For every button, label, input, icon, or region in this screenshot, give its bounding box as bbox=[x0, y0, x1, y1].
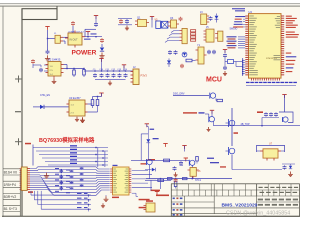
net label +B_PACK bbox=[151, 190, 161, 192]
node junctions on harness bbox=[95, 147, 96, 148]
wire bbox=[192, 60, 196, 62]
ruler cross mark 1 bbox=[15, 78, 22, 80]
resistor R1 bbox=[73, 69, 75, 71]
ground bbox=[126, 26, 128, 29]
MCU right pins bbox=[281, 15, 284, 17]
wire bbox=[246, 85, 296, 87]
capacitor C7 bbox=[31, 60, 35, 62]
ruler dash mark bbox=[15, 111, 21, 113]
wire bbox=[93, 96, 102, 98]
transistor Q5 bbox=[229, 120, 235, 126]
svg-text:4B_TOP: 4B_TOP bbox=[241, 123, 251, 126]
ruler cross mark 2 bbox=[15, 141, 22, 143]
wire (vertical chain) bbox=[231, 108, 233, 146]
transistor Q4 bbox=[283, 117, 288, 122]
wire bbox=[72, 26, 74, 33]
node junction bbox=[66, 68, 67, 69]
transistor Q8 bbox=[190, 160, 195, 165]
ground bbox=[208, 127, 210, 129]
VCC T-bar bbox=[99, 92, 103, 94]
net labels right of AFE bbox=[139, 199, 150, 201]
VCC T-bar bbox=[94, 15, 98, 17]
MCU right net labels top bbox=[286, 16, 292, 17]
MCU pin names right low bbox=[274, 54, 281, 57]
capacitor C19 bbox=[207, 50, 211, 52]
ground (fan) bbox=[46, 173, 48, 176]
resistor R2 bbox=[83, 69, 85, 70]
resistor R9 bbox=[186, 59, 192, 62]
capacitor C3 bbox=[94, 23, 98, 25]
sheet border zone notch bbox=[22, 9, 57, 20]
wire bbox=[131, 159, 189, 161]
wire (vertical drops to AFE top) bbox=[97, 148, 99, 168]
capacitor C21 bbox=[223, 54, 227, 56]
MCU left outside labels top bbox=[235, 16, 245, 17]
sheet border bottom bbox=[2, 215, 300, 217]
VCC T-bar bbox=[223, 49, 227, 51]
wire bbox=[118, 18, 132, 20]
VCC T-bar small bbox=[184, 157, 188, 159]
ground bbox=[105, 196, 107, 199]
window top white strip bbox=[0, 0, 300, 3]
svg-text:DSG_DRV: DSG_DRV bbox=[173, 93, 185, 96]
panel top edge line bbox=[0, 5, 300, 7]
transistor Q10 bbox=[147, 159, 152, 164]
resistor R3 bbox=[91, 100, 94, 106]
capacitor C15 bbox=[209, 17, 213, 19]
diode D6 bbox=[290, 164, 292, 166]
svg-text:MCU: MCU bbox=[206, 77, 222, 84]
connector J7 label bbox=[28, 191, 33, 193]
VCC T-bar bbox=[282, 94, 286, 96]
capacitor C14 bbox=[179, 17, 183, 19]
capacitor C27 bbox=[173, 167, 177, 169]
AFE left pins bbox=[110, 168, 112, 170]
wire bbox=[147, 143, 149, 159]
capacitor C18 bbox=[180, 64, 184, 66]
diode D2 bbox=[33, 106, 40, 108]
diode D9 bbox=[145, 169, 152, 171]
wire bbox=[205, 113, 209, 115]
title block top band text bbox=[259, 187, 263, 188]
title block v-lines bbox=[213, 184, 215, 214]
wire bbox=[63, 36, 68, 38]
svg-text:CHG_EN: CHG_EN bbox=[40, 94, 50, 97]
wire bbox=[284, 95, 286, 113]
ground bbox=[76, 117, 78, 120]
wire bbox=[47, 30, 49, 50]
capacitors C9-C13 on rail bbox=[94, 70, 95, 71]
net label bbox=[220, 166, 226, 167]
capacitor C16 bbox=[168, 51, 172, 53]
net label bbox=[153, 138, 159, 139]
MCU right net labels mid bbox=[286, 32, 295, 33]
wire bbox=[150, 180, 152, 190]
svg-text:B3R+V2: B3R+V2 bbox=[4, 195, 17, 199]
wire (bottom rail) bbox=[146, 178, 232, 180]
wire bbox=[231, 155, 233, 170]
wire harness to AFE bbox=[33, 147, 108, 149]
bus net labels below MCU bbox=[246, 82, 250, 83]
wire bbox=[145, 179, 171, 181]
wire bbox=[85, 36, 102, 38]
capacitor C17 bbox=[174, 51, 178, 53]
capacitor row C23 C24 C25 bbox=[264, 113, 268, 115]
window left edge line bbox=[2, 7, 4, 218]
ground bbox=[82, 118, 84, 121]
wires into MCU left bbox=[238, 36, 245, 38]
AFE right pins bbox=[129, 168, 131, 170]
resistor pack R5-R8 bbox=[191, 30, 196, 32]
connector J8 label bbox=[146, 200, 153, 202]
fan junction dots bbox=[61, 169, 62, 170]
capacitor C5 bbox=[119, 20, 123, 22]
wire fan from J4 bbox=[171, 31, 180, 33]
MCU left pins bbox=[245, 15, 248, 17]
diode D8 bbox=[147, 127, 149, 140]
revision cell icons bbox=[173, 198, 175, 200]
crystal Y2 bbox=[228, 60, 234, 64]
wire bbox=[132, 170, 148, 172]
MCU bottom pins bbox=[251, 78, 253, 80]
svg-text:STM32F103: STM32F103 bbox=[266, 58, 278, 60]
svg-text:BMS_V2021029: BMS_V2021029 bbox=[222, 203, 258, 209]
wire bbox=[160, 179, 162, 189]
VCC T-bar bbox=[210, 109, 214, 111]
net label bbox=[150, 129, 155, 130]
net label CHG bbox=[210, 162, 219, 163]
net label bbox=[84, 39, 91, 40]
IC U2 (6 pin) bbox=[48, 62, 61, 77]
wire bbox=[257, 150, 260, 152]
capacitor C6 bbox=[125, 20, 129, 22]
capacitor C26 bbox=[283, 166, 287, 168]
wire bbox=[64, 64, 68, 66]
capacitor C1 (top of power input) bbox=[71, 22, 75, 24]
node junction bbox=[47, 38, 48, 39]
LED D5 bbox=[182, 52, 187, 57]
AFE pin names bbox=[113, 168, 116, 171]
net label bbox=[148, 159, 156, 161]
connector J3 bbox=[201, 14, 207, 25]
wire bbox=[149, 165, 151, 179]
wire bbox=[132, 193, 138, 196]
wire bbox=[48, 38, 57, 40]
transistor Q1 (SOT-23) bbox=[138, 20, 147, 27]
ground bbox=[109, 81, 111, 84]
net label CHG_DSG bbox=[183, 112, 197, 113]
left net label texts bbox=[227, 36, 237, 37]
node junction bbox=[160, 178, 161, 179]
wire (vertical bus left of MCU) bbox=[242, 58, 244, 76]
wire bbox=[213, 122, 215, 126]
MCU right net labels low bbox=[286, 53, 292, 54]
sheet border left bbox=[21, 9, 23, 217]
wire bbox=[88, 111, 98, 113]
left revision table bbox=[3, 168, 20, 170]
svg-text:NTC1: NTC1 bbox=[195, 180, 202, 182]
wire bbox=[232, 169, 282, 171]
power VT T-bar bbox=[45, 26, 49, 28]
balance caps col 1 bbox=[60, 169, 62, 172]
diode D7 bbox=[180, 165, 184, 167]
ground bbox=[82, 117, 84, 120]
wire (left vertical) bbox=[140, 134, 142, 161]
VCC T-bar bbox=[182, 145, 186, 147]
ground bbox=[47, 55, 49, 58]
fan tiny labels bbox=[55, 168, 59, 169]
net label DSG bbox=[207, 158, 214, 159]
svg-text:B1S4 V0: B1S4 V0 bbox=[4, 171, 17, 175]
ground bbox=[175, 172, 177, 175]
net label +B bbox=[25, 143, 31, 145]
capacitor C4 bbox=[100, 39, 104, 41]
title block h-lines bbox=[171, 189, 299, 191]
wire loop bbox=[257, 145, 285, 152]
opto-isolator U3 bbox=[69, 100, 85, 116]
MCU pin names right top bbox=[277, 15, 280, 18]
wire loop bbox=[279, 112, 293, 123]
wire bbox=[32, 145, 34, 166]
net label +3V3 bbox=[91, 33, 97, 34]
buzzer LS1 bbox=[156, 21, 161, 28]
ground bbox=[224, 71, 226, 74]
resistor R10 bbox=[215, 98, 217, 100]
node junction bbox=[87, 36, 88, 37]
wire bbox=[261, 118, 263, 126]
net label bbox=[199, 112, 205, 113]
LED D1 bbox=[101, 44, 103, 47]
capacitor C22 bbox=[223, 66, 227, 68]
resistor R12 bbox=[164, 159, 170, 162]
harness labels bbox=[70, 145, 77, 146]
title block top band dividers bbox=[176, 184, 178, 196]
resistor R13 bbox=[168, 178, 173, 180]
wire bbox=[191, 165, 193, 178]
wire bbox=[32, 64, 34, 68]
net label bbox=[257, 111, 263, 113]
lower ladder wires (below AFE) bbox=[31, 194, 91, 196]
AFE top label bbox=[113, 165, 118, 166]
balance caps col 2 bbox=[71, 169, 73, 172]
resistor R14 bbox=[183, 178, 188, 180]
connector J7 (cell tap) bbox=[21, 167, 27, 190]
cell tap wire fan bbox=[30, 167, 110, 169]
VCC T-bar bbox=[150, 16, 154, 18]
wire (main 3V3 rail) bbox=[84, 70, 133, 72]
AFE ref label bbox=[112, 197, 119, 199]
diode D4 bbox=[168, 58, 170, 60]
+3V3 T-bar bbox=[86, 31, 90, 33]
connector J6 bbox=[218, 31, 223, 41]
MCU pin names left bbox=[249, 15, 254, 18]
capacitor C8 bbox=[39, 68, 43, 70]
wire bbox=[282, 163, 295, 165]
capacitor C28 bbox=[174, 178, 178, 180]
VCC T-bar bbox=[163, 143, 167, 145]
wire (horizontal to right edge) bbox=[214, 125, 301, 127]
net label +B_PACK_P bbox=[156, 195, 169, 197]
regulator U6 bbox=[190, 168, 196, 177]
VCC T-bar bbox=[122, 64, 126, 66]
capacitor C32 bbox=[179, 161, 183, 163]
svg-text:POWER: POWER bbox=[72, 50, 97, 57]
resistor R16 bbox=[158, 179, 164, 181]
svg-text:CSDN @weixin_44045854: CSDN @weixin_44045854 bbox=[226, 211, 290, 217]
opto U7 bbox=[263, 149, 278, 158]
resistor R11 bbox=[196, 157, 199, 162]
wire bbox=[44, 106, 69, 108]
svg-text:B1 S+T3: B1 S+T3 bbox=[4, 207, 17, 211]
transistor Q3 (SOT-23) bbox=[171, 20, 177, 28]
resistor R4 bbox=[97, 97, 99, 100]
net labels top-left of MCU bbox=[232, 8, 245, 9]
svg-text:SWDIO: SWDIO bbox=[230, 29, 238, 31]
ground bbox=[290, 172, 292, 175]
ground bbox=[101, 53, 103, 56]
wire bbox=[173, 95, 209, 97]
capacitor C2 bbox=[46, 50, 50, 52]
balance caps col 3 bbox=[81, 166, 83, 169]
MCU U4 (STM32) bbox=[249, 14, 282, 79]
ground (lower ladder) bbox=[102, 203, 104, 206]
VCC T-bar bbox=[99, 58, 103, 60]
resistor R15 bbox=[175, 180, 177, 181]
wire bbox=[235, 62, 237, 67]
connector J8 bbox=[146, 203, 155, 212]
transistor Q2 box bbox=[162, 21, 168, 28]
power arrow mark bbox=[155, 191, 159, 193]
wire loop bbox=[141, 133, 148, 135]
regulator U1 bbox=[68, 33, 82, 45]
wire bbox=[85, 28, 96, 30]
title block right text rows bbox=[258, 199, 263, 201]
wire bbox=[40, 65, 42, 67]
net label bbox=[141, 163, 147, 164]
wire (caps bottom rail) bbox=[95, 79, 126, 81]
connector J5 bbox=[206, 29, 214, 42]
window top grey divider bbox=[0, 2, 300, 4]
transistor Q9 bbox=[209, 117, 214, 122]
connector J2 bbox=[133, 69, 139, 85]
connector J4 bbox=[182, 28, 187, 43]
svg-text:1R5+P4: 1R5+P4 bbox=[4, 183, 16, 187]
transistor Q6 bbox=[229, 148, 235, 154]
transistor Q7 bbox=[210, 93, 215, 98]
capacitor C20 bbox=[212, 50, 216, 52]
ground bbox=[53, 79, 55, 82]
crystal Y1 bbox=[198, 47, 204, 64]
VCC T-bar bbox=[145, 123, 149, 125]
net label R20 bbox=[234, 132, 239, 134]
svg-text:IN OUT: IN OUT bbox=[70, 39, 79, 42]
diode D3 bbox=[216, 14, 218, 16]
title block outer bbox=[171, 184, 299, 217]
connector J1 (power input) bbox=[55, 35, 60, 43]
AFE U5 (BQ76930) bbox=[113, 167, 130, 195]
